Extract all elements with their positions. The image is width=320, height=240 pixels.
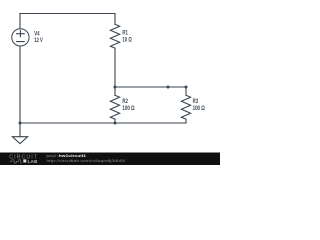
svg-text:12 V: 12 V (34, 37, 43, 44)
junction node mid net (167, 86, 170, 89)
wire bottom net: ground node to R3 (20, 122, 186, 124)
svg-text:hw1circuit1: hw1circuit1 (59, 154, 87, 158)
ground (12, 137, 27, 144)
resistor R1 (110, 24, 119, 48)
resistor R3 (181, 95, 190, 119)
svg-text:http://circuitlab.com/c/6sqm8j: http://circuitlab.com/c/6sqm8j3t649/ (47, 159, 126, 163)
wire mid net: R2 top to R3 top (115, 86, 186, 88)
svg-text:jwcpl /: jwcpl / (45, 154, 59, 158)
svg-text:LAB: LAB (28, 159, 38, 164)
svg-text:10 Ω: 10 Ω (122, 36, 132, 43)
wire to ground (19, 123, 21, 137)
wire R1 top lead (114, 14, 116, 25)
junction node at V4 minus / bottom net (19, 122, 22, 125)
resistor R2 (110, 95, 119, 119)
junction node mid net at R3 corner (185, 86, 188, 89)
wire V4 plus lead (19, 14, 21, 29)
junction node mid net at R1/R2 (114, 86, 117, 89)
wire V4 minus to bottom net (19, 46, 21, 123)
svg-text:100 Ω: 100 Ω (122, 105, 134, 112)
voltage source V4 (12, 29, 29, 46)
wire R1 bottom to mid net (114, 48, 116, 87)
CircuitLab logo (9, 154, 38, 164)
junction node bottom net at R2 (114, 122, 117, 125)
wire R3 top lead (185, 87, 187, 95)
watermark bar (0, 153, 220, 166)
svg-text:100 Ω: 100 Ω (193, 105, 205, 112)
wire top net: V4 plus to R1 top (20, 13, 115, 15)
wire R2 top lead (114, 87, 116, 95)
wire R2 bottom lead (114, 119, 116, 123)
wire R3 bottom lead (185, 119, 187, 123)
